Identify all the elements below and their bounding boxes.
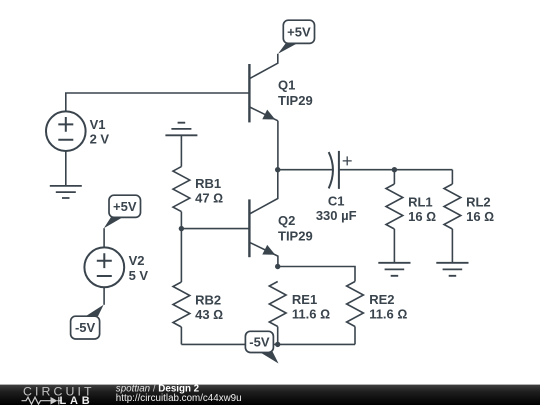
svg-text:V2: V2 bbox=[129, 253, 145, 268]
label RE2 11.6 Ω bbox=[369, 292, 407, 322]
wire C1 to RL2 bbox=[339, 169, 453, 171]
junction node RE1 bottom / -5V bbox=[275, 342, 280, 347]
flag +5V above V2 bbox=[104, 195, 141, 228]
transistor Q2 bbox=[249, 170, 278, 267]
svg-text:RL1: RL1 bbox=[408, 195, 433, 210]
flag -5V below V2 bbox=[71, 305, 104, 339]
svg-text:43 Ω: 43 Ω bbox=[195, 307, 223, 322]
voltage source V2 bbox=[84, 247, 124, 287]
label C1 330 µF bbox=[316, 194, 357, 223]
flag +5V at Q1 collector bbox=[278, 20, 315, 54]
transistor Q1 bbox=[249, 54, 278, 123]
wire node to Q2 base bbox=[181, 228, 249, 230]
svg-text:RE2: RE2 bbox=[369, 292, 394, 307]
svg-text:http://circuitlab.com/c44xw9u: http://circuitlab.com/c44xw9u bbox=[116, 393, 242, 404]
resistor RE1 bbox=[269, 282, 286, 327]
resistor RL2 bbox=[451, 170, 453, 184]
svg-text:+5V: +5V bbox=[113, 199, 137, 214]
label RE1 11.6 Ω bbox=[292, 292, 330, 322]
svg-text:V1: V1 bbox=[90, 117, 106, 132]
svg-text:TIP29: TIP29 bbox=[278, 228, 313, 243]
svg-text:TIP29: TIP29 bbox=[278, 93, 313, 108]
C1 plus polarity mark bbox=[343, 156, 352, 165]
label Q2 TIP29 bbox=[278, 213, 313, 244]
ground under V1 bbox=[50, 186, 82, 198]
label RL1 16 Ω bbox=[408, 195, 436, 225]
footer bar bbox=[0, 385, 540, 405]
svg-text:C1: C1 bbox=[328, 194, 345, 209]
wire output node to C1 bbox=[278, 169, 333, 171]
junction node at RL1 top bbox=[392, 167, 397, 172]
svg-text:47 Ω: 47 Ω bbox=[195, 191, 223, 206]
wire V2 top bbox=[103, 228, 105, 247]
wire V2 bottom bbox=[103, 287, 105, 305]
ground under RL1 bbox=[378, 263, 410, 276]
label RL2 16 Ω bbox=[466, 195, 494, 225]
svg-text:2 V: 2 V bbox=[90, 132, 110, 147]
wire node to RB2 bbox=[180, 229, 182, 282]
svg-text:LAB: LAB bbox=[60, 395, 94, 405]
svg-text:330 µF: 330 µF bbox=[316, 208, 357, 223]
svg-text:-5V: -5V bbox=[75, 320, 96, 335]
svg-text:16 Ω: 16 Ω bbox=[466, 209, 494, 224]
svg-text:5 V: 5 V bbox=[129, 268, 149, 283]
wire V1 bottom to ground bbox=[65, 151, 67, 186]
inverted ground above RB1 bbox=[165, 123, 197, 136]
label RB1 47 Ω bbox=[195, 176, 223, 206]
wire RB1 to node bbox=[180, 212, 182, 229]
junction node output (Q1 emitter / Q2 collector / C1) bbox=[275, 167, 280, 172]
svg-text:16 Ω: 16 Ω bbox=[408, 209, 436, 224]
svg-text:Q1: Q1 bbox=[278, 77, 295, 92]
svg-text:Q2: Q2 bbox=[278, 213, 295, 228]
label V2 5 V bbox=[129, 253, 149, 283]
resistor RB1 bbox=[173, 167, 190, 212]
wire RB2 bottom bbox=[180, 327, 182, 344]
junction node at RB1/RB2/Q2 base bbox=[179, 226, 184, 231]
svg-text:11.6 Ω: 11.6 Ω bbox=[292, 307, 330, 322]
flag -5V at emitter bottom node bbox=[245, 331, 278, 363]
label RB2 43 Ω bbox=[195, 293, 223, 323]
wire Q1 emitter down to output node bbox=[277, 121, 279, 170]
ground under RL2 bbox=[436, 263, 468, 276]
resistor RL1 bbox=[393, 170, 395, 184]
logo resistor squiggle and diode bbox=[22, 397, 62, 405]
voltage source V1 bbox=[46, 111, 86, 151]
capacitor C1 bbox=[329, 151, 339, 189]
svg-text:RB2: RB2 bbox=[195, 293, 221, 308]
resistor RB2 bbox=[173, 282, 190, 327]
bottom wire RB2 to RE2 bbox=[181, 343, 355, 345]
wire RE node across to RE2 bbox=[278, 267, 355, 282]
svg-text:+5V: +5V bbox=[287, 24, 311, 39]
wire ground stem to RB1 bbox=[180, 135, 182, 166]
label V1 2 V bbox=[90, 117, 110, 147]
svg-text:-5V: -5V bbox=[249, 334, 270, 349]
svg-text:RB1: RB1 bbox=[195, 176, 221, 191]
svg-text:RE1: RE1 bbox=[292, 292, 317, 307]
junction node Q2 emitter / RE1 bbox=[275, 264, 280, 269]
wire V1 top to Q1 base bbox=[66, 93, 250, 111]
label Q1 TIP29 bbox=[278, 77, 313, 108]
svg-text:RL2: RL2 bbox=[466, 195, 491, 210]
resistor RE2 bbox=[347, 282, 364, 327]
svg-text:11.6 Ω: 11.6 Ω bbox=[369, 307, 407, 322]
